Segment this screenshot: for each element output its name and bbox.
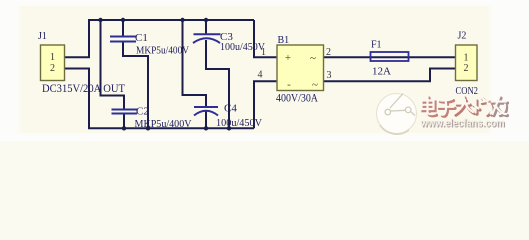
svg-text:100u/450V: 100u/450V [216, 117, 262, 129]
capacitor C3 (polarized) plates [193, 34, 221, 43]
node: junction dot bottom rail at C2 [122, 126, 126, 130]
node: junction dot bottom rail at C4 [204, 126, 208, 130]
svg-text:3: 3 [327, 70, 332, 81]
watermark logo disc [377, 94, 417, 135]
node: junction dot top rail at C2 feed [98, 18, 102, 22]
capacitor C1 plates [110, 37, 136, 42]
capacitor C2 plates [112, 110, 138, 114]
svg-text:MKP5u/400V: MKP5u/400V [136, 45, 189, 57]
node: junction dot bottom rail at C3 drop [227, 126, 231, 130]
svg-text:+: + [285, 52, 291, 64]
node: junction dot top rail at C3 [204, 18, 208, 22]
svg-text:CON2: CON2 [456, 85, 479, 97]
svg-text:-: - [287, 79, 291, 91]
connector J2 box [456, 45, 478, 81]
svg-text:12A: 12A [372, 66, 391, 78]
svg-text:MKP5u/400V: MKP5u/400V [135, 118, 192, 130]
svg-text:B1: B1 [278, 35, 290, 46]
connector J1 box [41, 45, 65, 81]
wire: C3 top stub [205, 20, 207, 34]
svg-text:2: 2 [464, 63, 469, 74]
svg-text:4: 4 [258, 70, 263, 81]
wire: top rail drop to B1 pin1 [254, 20, 277, 57]
wire: C2 feed from top rail jog [101, 20, 125, 109]
svg-text:F1: F1 [371, 40, 382, 51]
svg-text:C1: C1 [135, 32, 148, 44]
wire: C4 feed from top rail jog [183, 20, 207, 107]
watermark url www.elecfans.com [420, 118, 506, 131]
wire: C3 bottom to bottom rail via x=229 [206, 40, 229, 128]
svg-text:www.elecfans.com: www.elecfans.com [420, 118, 505, 130]
wire: top rail [89, 20, 254, 57]
watermark chinese text 电子发烧友 [422, 97, 508, 117]
svg-text:1: 1 [50, 52, 55, 63]
svg-text:1: 1 [261, 47, 266, 58]
wire: J1 pin2 horizontal and drop to bottom rail [64, 69, 254, 129]
svg-text:C2: C2 [136, 106, 149, 118]
svg-text:C4: C4 [224, 103, 237, 115]
fuse F1 body [371, 52, 409, 61]
svg-text:100u/450V: 100u/450V [220, 41, 265, 53]
wire: B1 pin2 to fuse F1 [324, 56, 372, 58]
svg-text:2: 2 [326, 47, 331, 58]
capacitor C4 (polarized) plates [194, 107, 218, 116]
node: junction dot top rail at C1 [121, 18, 125, 22]
svg-text:DC315V/20A OUT: DC315V/20A OUT [42, 81, 126, 95]
svg-text:2: 2 [50, 63, 55, 74]
svg-text:~: ~ [312, 79, 318, 91]
wire: J1 pin1 to rail riser [64, 56, 90, 58]
svg-text:~: ~ [310, 53, 316, 65]
svg-text:400V/30A: 400V/30A [276, 93, 319, 105]
wire: C1 top stub [122, 20, 124, 37]
node: junction dot bottom rail at C1 drop [146, 126, 150, 130]
wire: fuse F1 to J2 pin1 [408, 56, 456, 58]
wire: B1 pin4 to bottom rail [254, 81, 277, 128]
node: junction dot top rail at C4 feed [180, 18, 184, 22]
bridge rectifier B1 box [277, 45, 324, 91]
wire: B1 pin3 to J2 pin2 with step [324, 69, 457, 82]
wire: through fuse [371, 56, 408, 58]
wire: C1 bottom to bottom rail via x=148 [123, 42, 148, 129]
svg-text:J2: J2 [458, 31, 467, 42]
svg-text:1: 1 [464, 53, 469, 64]
svg-text:J1: J1 [38, 31, 47, 42]
wire: C4 bottom stub [205, 112, 207, 129]
wire: C2 bottom stub [123, 114, 125, 129]
